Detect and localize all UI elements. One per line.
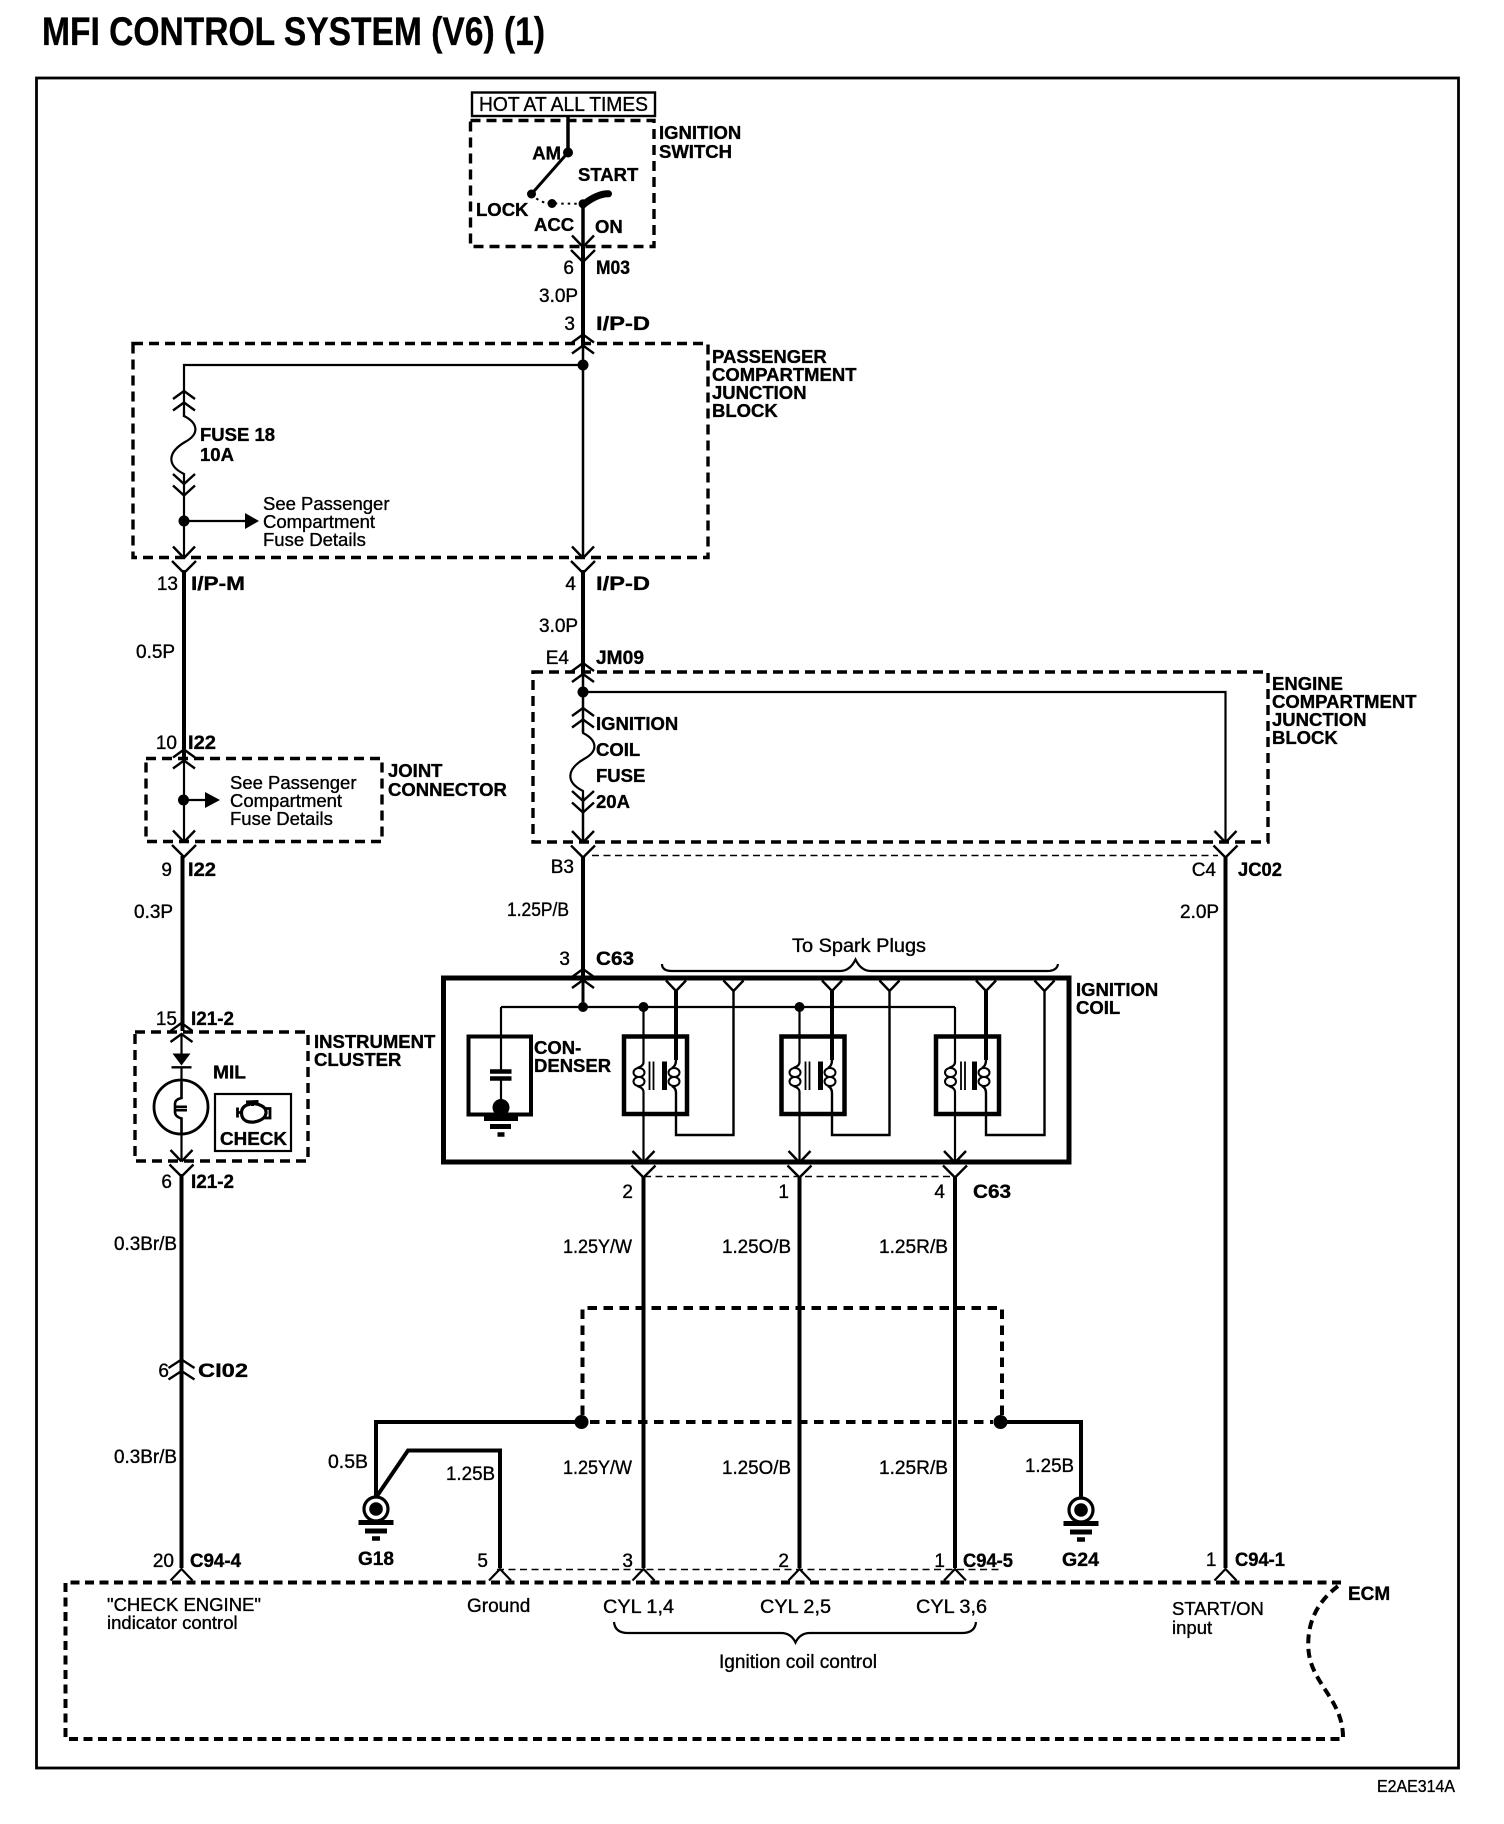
wire inside joint connector [183,760,185,841]
transformer box coil 1 (CYL 1,4) [624,1037,687,1115]
brace under CYL labels [614,1622,976,1643]
node engine block junction dot [578,687,589,698]
connector exit C63 output for coil 3 (CYL 3,6) [943,1151,967,1178]
svg-text:I/P-D: I/P-D [596,314,650,335]
svg-text:IGNITION: IGNITION [596,713,678,734]
passenger compartment junction block dashed box [133,344,708,558]
lamp filament [175,1082,182,1133]
spark plug output chevron (coil 3 (CYL 3,6) direct) [976,981,996,992]
svg-text:1.25Y/W: 1.25Y/W [563,1458,632,1479]
node AM terminal dot [563,148,573,158]
svg-text:20A: 20A [596,791,630,812]
svg-text:MIL: MIL [213,1062,246,1083]
spark plug output chevron (coil 3 (CYL 3,6) via riser) [1035,981,1055,992]
svg-text:6: 6 [158,1361,169,1382]
node bus tap dot for coil 2 (CYL 2,5) [795,1002,805,1012]
svg-text:10: 10 [156,733,177,754]
diode (LED of MIL) [173,1054,191,1066]
svg-text:CLUSTER: CLUSTER [314,1049,401,1070]
wire 1.25Y/W: C63-2 to ECM [642,1177,646,1568]
svg-text:ECM: ECM [1348,1584,1390,1605]
connector ECM entry pin 5 [489,1569,511,1581]
arrow to fuse details note 2 [184,799,206,801]
connector line C63 thin dashed [644,1176,951,1178]
wire 0.3Br/B upper: I21-2 to CI02 [180,1174,184,1568]
wire 1.25B to G24 [1001,1422,1082,1498]
svg-text:SWITCH: SWITCH [659,141,732,162]
spark plug output chevron (coil 2 (CYL 2,5) via riser) [880,981,900,992]
svg-text:COIL: COIL [1076,997,1120,1018]
connector exit I21-2 pin 6 [170,1150,194,1177]
svg-text:BLOCK: BLOCK [1272,727,1338,748]
svg-text:input: input [1172,1617,1212,1638]
connector exit I/P-D pin 4 [571,547,595,574]
ground G24 [1064,1498,1099,1540]
svg-text:CYL 2,5: CYL 2,5 [760,1597,831,1618]
svg-text:Ignition coil control: Ignition coil control [719,1652,877,1673]
svg-text:Fuse Details: Fuse Details [230,808,333,829]
svg-text:0.3P: 0.3P [134,902,173,923]
wire 1.25R/B: C63-4 to ECM [953,1177,957,1568]
wire 1.25B to ECM pin 5 [377,1451,500,1569]
wire 2.0P: JC02 to ECM C94-1 [1224,856,1228,1568]
transformer box coil 3 (CYL 3,6) [936,1037,999,1115]
connector ECM entry C94-4 pin 20 [171,1569,193,1581]
connector exit B3 [571,831,595,858]
dotted switch travel LOCK-ACC-ON [532,194,584,204]
svg-text:I21-2: I21-2 [191,1172,234,1193]
node bus feed dot [578,1002,588,1012]
connector exit I/P-M pin 13 [172,547,196,574]
secondary winding loops coil 2 (CYL 2,5) [825,1068,836,1077]
node shield left dot [575,1415,589,1429]
node junction dot to fuse branch [578,360,589,371]
primary winding wire coil 2 (CYL 2,5) [794,1007,800,1162]
svg-text:0.3Br/B: 0.3Br/B [114,1447,177,1468]
svg-text:2: 2 [622,1182,633,1203]
svg-text:LOCK: LOCK [476,199,529,220]
wire: ON contact down to connector M03 [581,204,585,246]
wire branch to FUSE 18 [184,365,583,417]
svg-text:M03: M03 [596,258,630,279]
svg-text:1: 1 [778,1182,789,1203]
shield dashed box around coil wires [583,1308,1003,1417]
svg-text:1.25O/B: 1.25O/B [722,1458,791,1479]
node fuse details tap dot [179,516,190,527]
wire feed inside coil box to bus [582,980,585,1007]
svg-text:To Spark Plugs: To Spark Plugs [792,936,926,957]
svg-text:10A: 10A [200,444,234,465]
wire inside engine block down to fuse [582,674,585,732]
secondary core bar coil 2 (CYL 2,5) [818,1062,823,1091]
svg-text:CI02: CI02 [198,1361,248,1382]
svg-text:1.25P/B: 1.25P/B [507,900,569,921]
svg-text:1: 1 [1206,1550,1217,1571]
wire capacitor to ground [500,1080,502,1102]
svg-text:3.0P: 3.0P [539,286,578,307]
node LOCK contact dot [527,190,536,199]
svg-text:2.0P: 2.0P [1180,902,1219,923]
svg-text:START: START [578,164,639,185]
secondary winding wire coil 1 (CYL 1,4) [674,991,678,1060]
svg-text:HOT AT ALL TIMES: HOT AT ALL TIMES [479,94,648,116]
arrow to fuse details note [184,520,246,522]
START contact thick segment [584,194,609,204]
node bus tap dot for coil 1 (CYL 1,4) [639,1002,649,1012]
spark plug output chevron (coil 2 (CYL 2,5) direct) [822,981,842,992]
svg-text:3: 3 [559,949,570,970]
wire diode to lamp [180,1067,182,1082]
primary winding loops coil 1 (CYL 1,4) [634,1068,645,1077]
wire 0.5P: I/P-M to I22 [182,570,186,758]
joint connector dashed box [146,759,382,842]
connector ECM entry coil pins [633,1569,655,1581]
ECM dashed box with wavy right edge [66,1583,1344,1740]
svg-text:I/P-D: I/P-D [596,574,650,595]
svg-text:13: 13 [157,574,178,595]
svg-text:G24: G24 [1062,1550,1099,1571]
svg-text:I21-2: I21-2 [191,1009,234,1030]
svg-text:G18: G18 [358,1549,394,1570]
svg-text:3.0P: 3.0P [539,616,578,637]
wire 1.25P/B: B3 to C63 [581,856,585,977]
connector exit C63 output for coil 1 (CYL 1,4) [632,1151,656,1178]
wire below fuse F18 [183,479,185,557]
shield dashed bottom run [590,1420,993,1424]
transformer core coil 2 (CYL 2,5) [805,1062,807,1091]
switch wiper contact AM to LOCK [532,153,569,195]
connector inline CI02 pin 6 [169,1360,195,1380]
svg-text:ON: ON [595,216,623,237]
connector entry I22 pin 10 [173,750,195,769]
svg-text:indicator control: indicator control [107,1612,238,1633]
CHECK engine telltale box [215,1094,291,1151]
primary winding loops coil 3 (CYL 3,6) [945,1068,956,1077]
svg-text:BLOCK: BLOCK [712,400,778,421]
svg-text:C4: C4 [1192,860,1217,881]
svg-text:FUSE: FUSE [596,765,645,786]
svg-text:1.25B: 1.25B [446,1464,495,1485]
wire below ignition coil fuse [582,796,585,842]
connector exit JC02 pin C4 [1214,831,1238,858]
node ACC contact dot [548,199,557,208]
svg-text:DENSER: DENSER [534,1055,611,1076]
svg-text:IGNITION: IGNITION [659,122,741,143]
connector entry C63 pin 3 [572,969,594,988]
instrument cluster dashed box [135,1032,308,1161]
secondary winding loops coil 3 (CYL 3,6) [979,1068,990,1077]
svg-text:1.25Y/W: 1.25Y/W [563,1237,632,1258]
check engine icon [238,1102,271,1123]
svg-text:1.25R/B: 1.25R/B [879,1237,948,1258]
wire 3.0P: M03 to I/P-D [581,247,585,343]
svg-text:I/P-M: I/P-M [191,574,245,595]
node shield right dot [994,1415,1008,1429]
secondary winding wire coil 2 (CYL 2,5) [830,991,834,1060]
transformer core coil 1 (CYL 1,4) [649,1062,651,1091]
svg-text:E2AE314A: E2AE314A [1377,1776,1455,1796]
svg-text:5: 5 [477,1551,488,1572]
ignition switch SW1 dashed box [471,121,655,247]
wire lamp to exit [180,1134,182,1160]
svg-text:JOINT: JOINT [388,760,443,781]
MIL lamp bulb circle [154,1080,208,1134]
node joint connector tap dot [178,795,189,806]
spark plug output chevron (coil 1 (CYL 1,4) direct) [666,981,686,992]
connector line B3-C4 thin dashed [592,855,1218,857]
secondary winding wire coil 3 (CYL 3,6) [984,991,988,1060]
wire: HOT AT ALL TIMES to AM terminal [566,116,570,152]
power label box: HOT AT ALL TIMES [472,93,655,117]
svg-text:C63: C63 [596,949,634,970]
primary winding loops coil 2 (CYL 2,5) [790,1068,801,1077]
svg-text:C94-1: C94-1 [1235,1550,1285,1571]
wire inside junction block (vertical feed) [582,345,585,557]
connector entry I21-2 pin 15 [171,1023,193,1042]
transformer core coil 3 (CYL 3,6) [960,1062,962,1091]
svg-text:6: 6 [161,1172,172,1193]
svg-text:C63: C63 [973,1182,1011,1203]
svg-text:MFI CONTROL SYSTEM (V6) (1): MFI CONTROL SYSTEM (V6) (1) [42,10,545,54]
connector exit M03 pin 6 [571,236,595,263]
wire 0.5B to G18 [376,1422,582,1497]
svg-text:JC02: JC02 [1238,860,1282,881]
connector exit I22 pin 9 [172,831,196,858]
svg-text:FUSE 18: FUSE 18 [200,424,275,445]
condenser box [469,1037,532,1115]
svg-text:JM09: JM09 [596,648,644,669]
svg-text:CONNECTOR: CONNECTOR [388,779,507,800]
svg-text:20: 20 [153,1551,174,1572]
svg-text:1.25R/B: 1.25R/B [879,1458,948,1479]
svg-text:B3: B3 [551,857,574,878]
capacitor plates [490,1069,512,1074]
svg-text:0.3Br/B: 0.3Br/B [114,1234,177,1255]
primary winding wire coil 3 (CYL 3,6) [949,1007,955,1162]
svg-text:Fuse Details: Fuse Details [263,529,366,550]
ground G18 [359,1497,394,1539]
secondary core bar coil 1 (CYL 1,4) [662,1062,667,1091]
condenser ground bars [484,1116,518,1121]
spark plug output chevron (coil 1 (CYL 1,4) via riser) [724,981,744,992]
svg-text:1.25B: 1.25B [1025,1456,1074,1477]
svg-text:E4: E4 [546,648,570,669]
svg-text:3: 3 [564,314,575,335]
wire 0.3P: I22 to I21-2 [181,856,185,1031]
condenser ground dot [493,1099,510,1116]
wire bus to capacitor [500,1007,502,1070]
wire into diode [180,1034,182,1054]
bus wire inside ignition coil [501,1006,955,1008]
svg-text:I22: I22 [188,733,216,754]
svg-text:COIL: COIL [596,739,640,760]
primary winding wire coil 1 (CYL 1,4) [638,1007,644,1162]
wire branch to JC02 C4 [583,692,1226,842]
svg-text:AM: AM [532,143,561,164]
connector entry I/P-D pin 3 [572,335,594,354]
secondary winding loops coil 1 (CYL 1,4) [669,1068,680,1077]
connector ECM entry C94-1 pin 1 [1215,1569,1237,1581]
wire 3.0P: I/P-D to JM09 [581,570,585,671]
connector entry JM09 pin E4 [572,663,594,682]
svg-text:CYL 1,4: CYL 1,4 [603,1597,674,1618]
fuse F18 symbol [171,391,195,496]
svg-text:15: 15 [156,1009,177,1030]
svg-text:CHECK: CHECK [220,1128,288,1149]
svg-text:0.5P: 0.5P [136,642,175,663]
svg-text:0.5B: 0.5B [328,1452,368,1473]
svg-text:I22: I22 [188,860,216,881]
node ON contact dot [579,199,588,208]
svg-text:6: 6 [563,258,574,279]
fuse ignition coil fuse symbol [570,708,594,813]
svg-text:Ground: Ground [467,1596,530,1617]
svg-text:9: 9 [161,860,172,881]
wire 1.25O/B: C63-1 to ECM [798,1177,802,1568]
transformer box coil 2 (CYL 2,5) [782,1037,845,1115]
svg-text:ACC: ACC [534,214,574,235]
svg-text:4: 4 [934,1182,945,1203]
svg-text:START/ON: START/ON [1172,1598,1264,1619]
svg-text:1.25O/B: 1.25O/B [722,1237,791,1258]
brace over spark plug outputs [662,960,1058,972]
svg-text:CYL 3,6: CYL 3,6 [916,1597,987,1618]
secondary core bar coil 3 (CYL 3,6) [972,1062,977,1091]
svg-text:4: 4 [565,574,576,595]
svg-text:C94-4: C94-4 [190,1551,241,1572]
connector exit C63 output for coil 2 (CYL 2,5) [788,1151,812,1178]
connector line C94-5 thin dashed [497,1569,1001,1571]
ignition coil assembly box [444,978,1070,1162]
engine compartment junction block dashed box [533,672,1268,842]
